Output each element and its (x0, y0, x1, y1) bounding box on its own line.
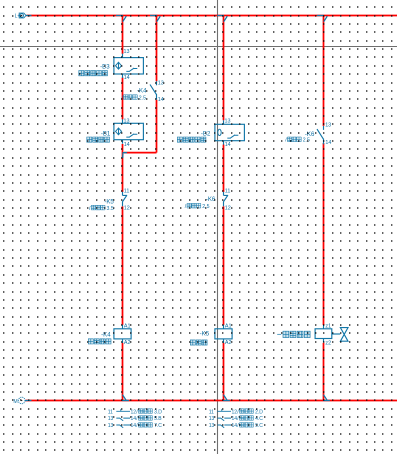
svg-text:-K5: -K5 (104, 198, 114, 205)
svg-text:13: 13 (209, 416, 215, 422)
svg-text:M: M (13, 399, 17, 405)
svg-text:2.D: 2.D (255, 409, 263, 415)
svg-text:A2: A2 (124, 340, 131, 346)
svg-text:9.C: 9.C (255, 423, 263, 429)
svg-text:13: 13 (325, 122, 331, 128)
svg-text:13: 13 (124, 119, 130, 125)
svg-text:11: 11 (124, 189, 130, 195)
svg-text:2.5: 2.5 (139, 95, 146, 101)
svg-text:L+: L+ (15, 14, 21, 20)
svg-text:3.5: 3.5 (107, 206, 114, 212)
svg-text:2.5: 2.5 (303, 138, 310, 144)
svg-text:13: 13 (108, 416, 114, 422)
svg-text:2.5: 2.5 (202, 204, 209, 210)
svg-text:A1: A1 (124, 323, 131, 329)
svg-text:11: 11 (209, 409, 214, 415)
svg-text:12: 12 (124, 206, 130, 212)
svg-text:14: 14 (124, 75, 130, 81)
svg-text:11: 11 (225, 189, 231, 195)
svg-text:12: 12 (225, 206, 231, 212)
svg-text:13: 13 (124, 49, 130, 55)
svg-text:14: 14 (158, 97, 164, 103)
svg-text:A2: A2 (225, 340, 232, 346)
svg-text:3.D: 3.D (154, 409, 162, 415)
svg-text:z1: z1 (325, 324, 331, 330)
svg-text:-K5: -K5 (200, 331, 210, 338)
svg-text:13: 13 (209, 423, 215, 429)
svg-text:7.C: 7.C (154, 423, 162, 429)
svg-text:z2: z2 (325, 340, 331, 346)
svg-text:14: 14 (225, 142, 231, 148)
svg-text:13: 13 (158, 80, 164, 86)
svg-text:14: 14 (124, 142, 130, 148)
svg-text:-K4: -K4 (101, 332, 111, 339)
svg-text:-B1: -B1 (101, 131, 111, 138)
svg-text:-B2: -B2 (201, 131, 211, 138)
svg-text:-B3: -B3 (100, 64, 110, 71)
svg-text:14: 14 (325, 140, 331, 146)
svg-text:11: 11 (108, 409, 113, 415)
svg-text:A1: A1 (225, 323, 232, 329)
svg-text:13: 13 (225, 119, 231, 125)
svg-text:13: 13 (108, 423, 114, 429)
